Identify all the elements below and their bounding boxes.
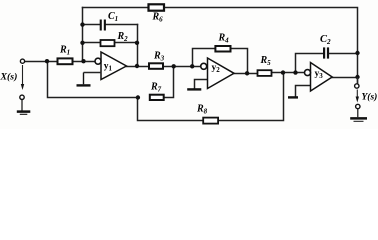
capacitor C1 [100, 20, 106, 31]
resistor R2 [101, 40, 115, 46]
ground (y1 non-inverting input) [77, 73, 91, 86]
node R7/R8 split [136, 95, 140, 99]
terminal Y upper [355, 84, 359, 88]
node junction dots [45, 22, 360, 99]
resistor R3 [149, 63, 163, 69]
wire C2 loop [296, 54, 323, 73]
wire left feedback rail [82, 8, 84, 62]
wire R6 top line [83, 8, 358, 84]
terminal X lower [20, 95, 24, 99]
node R2 left [80, 41, 84, 45]
wire C1 line [83, 24, 100, 26]
capacitor C2 [323, 47, 329, 58]
node C2 left [293, 70, 297, 74]
resistor R4 [215, 46, 230, 52]
wire R7 branch vertical [164, 67, 174, 98]
wire y2 output to R5 [234, 73, 258, 75]
resistor R1 [58, 58, 73, 64]
ground (input) [17, 100, 31, 114]
resistor R6 [149, 4, 165, 10]
terminal X upper [20, 59, 24, 63]
wire y3 output [332, 77, 357, 79]
resistor R8 [203, 118, 218, 124]
node R7 join [172, 64, 176, 68]
node input split [45, 59, 49, 63]
op-amp U2 (y2) [208, 58, 235, 89]
wire right feedback rail [137, 25, 139, 67]
node R2 right [135, 41, 139, 45]
op-amp U1 (y1) [101, 52, 127, 80]
node y1 inverting input [81, 59, 85, 63]
ground (y2 non-inverting input) [187, 88, 201, 89]
ground (y3 non-inverting input) [288, 96, 298, 98]
wire R2 line [83, 42, 101, 44]
wire input line A [25, 61, 58, 63]
ground (output) [350, 109, 367, 121]
wire R3 to y2 bubble [163, 66, 201, 68]
svg-text:Y(s): Y(s) [362, 91, 378, 102]
wire R5 to y3 bubble [272, 72, 305, 74]
resistor R7 [150, 95, 164, 100]
wire input drop to bottom [48, 62, 138, 98]
wire y2 lower input to ground [195, 80, 208, 89]
node C2 right [355, 51, 359, 55]
node y2 output [245, 71, 249, 75]
node C1 left [80, 22, 84, 26]
wire y1 lower input [84, 72, 102, 74]
svg-text:X(s): X(s) [0, 71, 17, 82]
resistor R5 [258, 70, 272, 76]
node R8 join [281, 70, 285, 74]
node y3 output [355, 75, 359, 79]
arrow Y output [356, 90, 358, 98]
wire y3 lower input to ground [296, 86, 311, 97]
arrow X source [22, 65, 24, 85]
wire R8 loop [138, 98, 204, 121]
wire R1 to y1 bubble [73, 61, 96, 63]
node y1 output [135, 64, 139, 68]
node R4 join [190, 64, 194, 68]
op-amp U3 (y3) [311, 63, 333, 92]
terminal Y lower [356, 104, 360, 108]
wire R4 loop [193, 49, 216, 67]
wire y3 output to terminal [357, 78, 359, 84]
wire y1 output to R3 [127, 66, 150, 68]
